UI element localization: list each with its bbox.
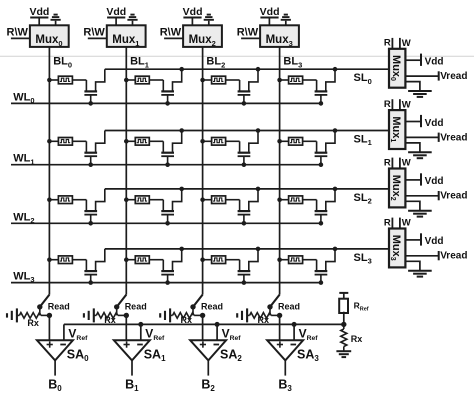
svg-text:R: R <box>384 157 391 168</box>
svg-text:W: W <box>402 218 411 229</box>
svg-text:Vdd: Vdd <box>29 6 49 18</box>
svg-text:Rx: Rx <box>104 315 116 325</box>
svg-text:Read: Read <box>48 302 70 312</box>
svg-text:R\W: R\W <box>7 26 29 38</box>
svg-text:Vdd: Vdd <box>183 6 203 18</box>
svg-text:Vread: Vread <box>440 132 467 143</box>
svg-text:W: W <box>402 99 411 110</box>
svg-text:Read: Read <box>125 302 147 312</box>
svg-text:R: R <box>384 38 391 49</box>
svg-text:Rx: Rx <box>258 315 270 325</box>
svg-text:Vdd: Vdd <box>425 57 444 68</box>
svg-text:R: R <box>384 217 391 228</box>
svg-text:Rx: Rx <box>27 318 39 328</box>
svg-text:R\W: R\W <box>160 26 182 38</box>
svg-text:Rx: Rx <box>351 334 363 344</box>
svg-text:Vread: Vread <box>440 251 467 262</box>
svg-text:Read: Read <box>201 302 223 312</box>
svg-text:Read: Read <box>278 302 300 312</box>
svg-text:Vdd: Vdd <box>260 6 280 18</box>
svg-text:Vdd: Vdd <box>106 6 126 18</box>
svg-text:Vdd: Vdd <box>425 176 444 187</box>
svg-text:Rx: Rx <box>181 315 193 325</box>
svg-text:R\W: R\W <box>237 26 259 38</box>
svg-text:W: W <box>402 38 411 49</box>
svg-text:Vdd: Vdd <box>425 236 444 247</box>
svg-text:R\W: R\W <box>83 26 105 38</box>
svg-text:W: W <box>402 158 411 169</box>
svg-text:Vdd: Vdd <box>425 118 444 129</box>
svg-text:Vread: Vread <box>440 71 467 82</box>
svg-text:R: R <box>384 99 391 110</box>
svg-text:Vread: Vread <box>440 191 467 202</box>
